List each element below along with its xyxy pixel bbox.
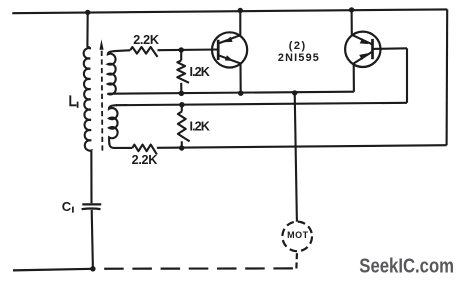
- transistor Q2 upper arrowhead: [360, 38, 369, 44]
- wire bottom left solid: [13, 269, 93, 271]
- transistor Q1 upper diagonal: [219, 35, 241, 43]
- transistor Q1 upper arrowhead: [224, 37, 232, 43]
- wire left vertical from rail to L1 primary + inductor L1 primary winding: [84, 12, 92, 203]
- node junction line A / MOT branch: [292, 90, 297, 95]
- inductor L1 secondary lower winding: [109, 105, 118, 148]
- svg-text:(2): (2): [289, 40, 306, 52]
- node junction rail-Q1 collector: [238, 8, 243, 13]
- resistor R2 1.2K upper: [180, 50, 182, 61]
- transistor Q1 2N1595 circle: [212, 32, 247, 67]
- transistor Q2 bar: [371, 39, 374, 59]
- wire C1 to bottom node: [92, 210, 93, 269]
- wire Q2 anode vertical: [351, 10, 353, 35]
- transistor Q2 lower diagonal: [354, 52, 373, 64]
- svg-text:C: C: [62, 199, 72, 214]
- node junction rail-Q2 anode: [349, 7, 354, 12]
- wire Q2 gate lead horizontal: [373, 47, 408, 50]
- label L1: [70, 95, 76, 105]
- wire line C to right vertical: [157, 145, 447, 148]
- wire R1 to Q1 base: [158, 48, 219, 51]
- L1 tuning arrow head: [100, 39, 104, 49]
- wire line A emitter bus: [112, 92, 354, 94]
- wire MOT bottom dashed vertical: [295, 251, 298, 268]
- node junction line A / Q1 emitter: [238, 91, 243, 96]
- inductor L1 secondary upper winding: [108, 51, 117, 94]
- node junction rail-L1: [85, 10, 90, 15]
- node junction base line / R2: [179, 47, 184, 52]
- wire line C gate line left: [114, 147, 133, 149]
- wire top supply rail: [12, 9, 447, 13]
- svg-text:2.2K: 2.2K: [133, 33, 159, 47]
- resistor R1 2.2K: [130, 47, 157, 57]
- resistor R3 1.2K lower: [181, 105, 183, 112]
- L1 tuning arrow shaft (dashed): [101, 51, 104, 153]
- capacitor C1 top plate: [82, 203, 101, 205]
- wire Q2 gate lead down: [406, 48, 408, 103]
- motor MOT dashed circle: [282, 222, 312, 252]
- transistor Q2 lower arrowhead: [359, 53, 368, 60]
- node junction line C / R3: [179, 145, 184, 150]
- wire line B gate return: [116, 103, 407, 105]
- wire Q1 collector vertical: [239, 11, 241, 36]
- transistor Q2 2N1595 circle: [345, 32, 380, 67]
- transistor Q1 base bar: [217, 40, 220, 60]
- node junction bottom line / C1: [90, 266, 95, 271]
- wire bottom dashed return: [96, 267, 297, 270]
- resistor R4 2.2K lower: [132, 145, 157, 155]
- svg-text:SeekIC.com: SeekIC.com: [359, 254, 454, 277]
- wire right feedback vertical: [446, 9, 449, 145]
- node junction line B / R3: [179, 102, 184, 107]
- wire Q1 emitter vertical: [239, 64, 241, 94]
- svg-text:I.2K: I.2K: [190, 65, 210, 79]
- svg-text:I.2K: I.2K: [190, 119, 210, 133]
- node junction line A / R2: [179, 91, 184, 96]
- wire secondary top to R1: [117, 49, 130, 52]
- transistor Q1 lower diagonal: [219, 55, 241, 63]
- wire MOT branch vertical: [295, 93, 297, 222]
- svg-text:2.2K: 2.2K: [132, 153, 158, 167]
- wire Q2 cathode vertical: [353, 64, 355, 92]
- capacitor C1 bottom plate: [82, 207, 101, 210]
- transistor Q2 upper diagonal: [352, 35, 372, 44]
- svg-text:MOT: MOT: [287, 230, 309, 240]
- transistor Q1 lower arrowhead: [225, 55, 233, 61]
